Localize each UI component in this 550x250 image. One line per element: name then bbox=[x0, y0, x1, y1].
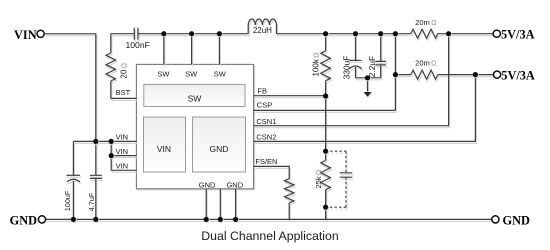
junction CSN2 sense on ch2 bbox=[473, 72, 478, 77]
svg-text:VIN: VIN bbox=[14, 28, 37, 42]
resistor R 20ohm leads bbox=[111, 34, 135, 99]
capacitor C 4.7uF body wires bbox=[95, 141, 97, 219]
capacitor C 100uF top plate bbox=[67, 174, 81, 176]
capacitor C 330uF curved bottom plate bbox=[349, 66, 362, 69]
capacitor C 2.2uF plates bbox=[375, 61, 386, 65]
svg-text:5V/3A: 5V/3A bbox=[501, 28, 535, 42]
svg-text:100nF: 100nF bbox=[126, 40, 150, 50]
ground symbol stem bbox=[367, 78, 369, 92]
wire joining 330uF and 2.2uF bottoms bbox=[356, 77, 381, 79]
svg-text:GND: GND bbox=[10, 214, 37, 228]
svg-text:20 Ω: 20 Ω bbox=[120, 63, 129, 79]
wire GND pin 3 vertical bbox=[235, 189, 237, 220]
junction 25k bottom / dashed branch bbox=[323, 205, 328, 210]
resistor R 100k zigzag bbox=[321, 51, 331, 81]
wire SW pin 3 vertical bbox=[218, 34, 220, 65]
wire output rail ch1 bbox=[277, 33, 494, 35]
junction 100uF at ground rail bbox=[71, 217, 76, 222]
capacitor C 100nF plates bbox=[134, 28, 138, 40]
resistor R 20mohm ch1 zigzag bbox=[411, 29, 438, 38]
inner block VIN bbox=[144, 117, 186, 172]
svg-text:100uF: 100uF bbox=[63, 190, 72, 211]
wire input cap/VIN-pin horizontal at y=141.4 bbox=[73, 140, 136, 142]
IC body U1 bbox=[136, 64, 253, 188]
svg-text:SW: SW bbox=[157, 70, 170, 79]
svg-text:FS/EN: FS/EN bbox=[255, 157, 277, 166]
resistor R 25k zigzag bbox=[321, 160, 331, 189]
wire ch2 tap vertical (rail to CSP) bbox=[394, 34, 396, 111]
wire FB node to 25k vertical bbox=[325, 96, 327, 152]
svg-text:CSP: CSP bbox=[257, 101, 272, 110]
svg-text:330uF: 330uF bbox=[342, 56, 352, 80]
resistor R 100k leads bbox=[325, 34, 327, 96]
svg-text:25k Ω: 25k Ω bbox=[314, 170, 323, 189]
wire SW pin 2 vertical bbox=[191, 34, 193, 65]
ground symbol arrowhead bbox=[364, 92, 372, 97]
svg-text:BST: BST bbox=[116, 88, 131, 97]
terminal GND left bbox=[38, 216, 45, 223]
svg-text:SW: SW bbox=[214, 70, 227, 79]
wire VIN pin 3 stub bbox=[111, 169, 136, 171]
wire bottom ground rail bbox=[46, 218, 492, 220]
wire CSN1 pin and sense line bbox=[254, 34, 449, 126]
svg-text:4.7uF: 4.7uF bbox=[87, 192, 96, 211]
wire FB pin bbox=[254, 95, 326, 97]
junction VIN pin bus 1 bbox=[109, 139, 114, 144]
resistor R 20mohm ch2 zigzag bbox=[411, 70, 438, 79]
junction VIN feed node bbox=[93, 139, 98, 144]
svg-text:GND: GND bbox=[503, 214, 530, 228]
svg-text:Dual Channel Application: Dual Channel Application bbox=[201, 229, 339, 243]
svg-text:GND: GND bbox=[199, 180, 216, 189]
svg-text:20m Ω: 20m Ω bbox=[415, 18, 436, 27]
junction SW pin 3 bbox=[217, 31, 222, 36]
svg-text:20m Ω: 20m Ω bbox=[415, 59, 436, 68]
resistor R 20ohm zigzag bbox=[106, 53, 116, 81]
inductor L 22uH bbox=[248, 19, 276, 34]
wire FS/EN pin bbox=[254, 166, 290, 178]
junction 4.7uF at ground rail bbox=[93, 217, 98, 222]
terminal 5V/3A output 1 bbox=[493, 30, 500, 37]
wire SW pin 1 vertical bbox=[163, 34, 165, 65]
inner block GND bbox=[193, 117, 246, 172]
junction 330uF at rail bbox=[353, 31, 358, 36]
capacitor C 100uF curved bottom plate bbox=[67, 179, 80, 182]
wire ch2 rail bbox=[395, 74, 493, 76]
wire GND pin 2 vertical bbox=[219, 189, 221, 220]
node FB divider junction bbox=[323, 93, 328, 98]
terminal 5V/3A output 2 bbox=[494, 71, 501, 78]
svg-text:VIN: VIN bbox=[116, 147, 129, 156]
capacitor C 330uF top plate bbox=[350, 59, 362, 61]
junction GND pin 3 at rail bbox=[233, 217, 238, 222]
svg-text:100k Ω: 100k Ω bbox=[311, 53, 320, 77]
junction ch2 tap at rail bbox=[393, 31, 398, 36]
resistor R on FS/EN zigzag bbox=[285, 179, 294, 203]
junction 25k top / dashed branch bbox=[323, 149, 328, 154]
inner block SW bbox=[144, 84, 245, 106]
junction SW pin 1 bbox=[161, 31, 166, 36]
junction 100k at rail bbox=[323, 31, 328, 36]
junction 2.2uF at rail bbox=[378, 31, 383, 36]
svg-text:FB: FB bbox=[257, 87, 267, 96]
svg-text:GND: GND bbox=[210, 144, 229, 154]
junction GND pin 1 at rail bbox=[204, 217, 209, 222]
svg-text:22uH: 22uH bbox=[253, 26, 272, 35]
wire BST pin stub bbox=[111, 97, 137, 99]
wire SW rail from 100nF to inductor bbox=[138, 33, 248, 35]
wire VIN lead from input terminal to vertical feed bbox=[44, 34, 96, 142]
resistor R 25k leads bbox=[325, 151, 327, 219]
capacitor C 2.2uF body wires bbox=[380, 34, 382, 78]
svg-text:CSN1: CSN1 bbox=[256, 117, 276, 126]
svg-text:5V/3A: 5V/3A bbox=[501, 69, 535, 83]
svg-text:VIN: VIN bbox=[116, 162, 129, 171]
junction SW pin 2 bbox=[189, 31, 194, 36]
dashed branch capacitor plates bbox=[340, 173, 353, 177]
wire VIN pin 2 stub bbox=[111, 155, 136, 157]
dashed optional cap branch outline bbox=[326, 151, 346, 207]
terminal GND right bbox=[492, 216, 499, 223]
wire VIN pin bus vertical bbox=[110, 141, 112, 170]
wire GND pin 1 vertical bbox=[205, 189, 207, 220]
svg-text:VIN: VIN bbox=[116, 133, 129, 142]
terminal VIN input bbox=[37, 30, 44, 37]
wire CSN2 pin and sense line bbox=[254, 75, 476, 142]
svg-text:SW: SW bbox=[188, 93, 202, 103]
svg-text:SW: SW bbox=[185, 70, 198, 79]
svg-text:2.2uF: 2.2uF bbox=[367, 56, 377, 77]
wire CSP pin bbox=[254, 109, 396, 111]
capacitor C 4.7uF plates bbox=[90, 175, 102, 178]
junction CSN1 sense at rail bbox=[446, 31, 451, 36]
junction VIN pin bus 2 bbox=[109, 153, 114, 158]
junction GND pin 2 at rail bbox=[218, 217, 223, 222]
capacitor C 100uF body wires bbox=[72, 141, 74, 219]
svg-text:VIN: VIN bbox=[157, 144, 171, 154]
svg-text:CSN2: CSN2 bbox=[256, 133, 276, 142]
resistor R on FS/EN bottom lead bbox=[288, 203, 290, 220]
svg-text:GND: GND bbox=[226, 180, 243, 189]
capacitor C 330uF body wires bbox=[355, 34, 357, 78]
wire 25k bottom segment through dot bbox=[325, 190, 327, 220]
junction ch2 branch bbox=[393, 72, 398, 77]
junction local ground node bbox=[365, 75, 370, 80]
